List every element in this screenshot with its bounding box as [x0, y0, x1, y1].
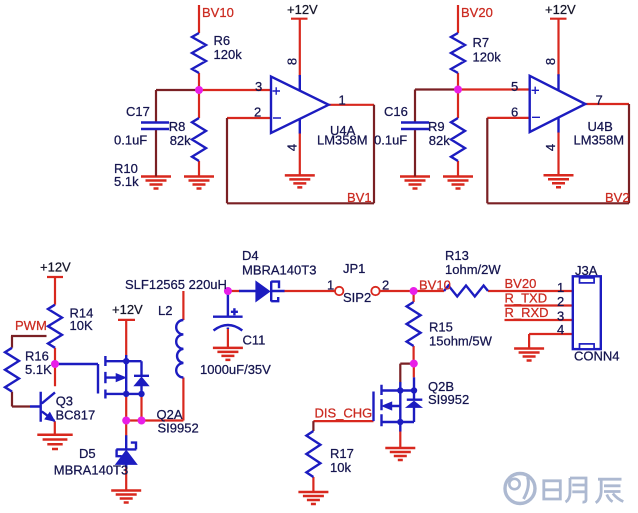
svg-text:6: 6: [511, 105, 518, 120]
svg-text:BV20: BV20: [461, 5, 493, 20]
svg-text:120k: 120k: [473, 50, 502, 65]
svg-text:BV1: BV1: [347, 190, 372, 205]
svg-text:4: 4: [284, 144, 299, 151]
svg-text:2: 2: [382, 278, 389, 293]
svg-text:10k: 10k: [330, 460, 351, 475]
svg-text:J3A: J3A: [575, 263, 598, 278]
svg-text:+12V: +12V: [112, 302, 143, 317]
svg-text:MBRA140T3: MBRA140T3: [54, 463, 128, 478]
svg-text:1ohm/2W: 1ohm/2W: [445, 262, 501, 277]
svg-text:R_TXD: R_TXD: [505, 291, 548, 306]
svg-text:LM358M: LM358M: [317, 133, 368, 148]
svg-text:L2: L2: [158, 303, 172, 318]
svg-text:5.1K: 5.1K: [25, 362, 52, 377]
svg-text:BC817: BC817: [56, 408, 96, 423]
svg-text:2: 2: [254, 105, 261, 120]
svg-text:BV2: BV2: [605, 190, 630, 205]
svg-text:BV10: BV10: [419, 278, 451, 293]
svg-text:82k: 82k: [170, 133, 191, 148]
svg-text:1: 1: [557, 280, 564, 295]
svg-text:R_RXD: R_RXD: [505, 305, 549, 320]
svg-text:SIP2: SIP2: [343, 290, 371, 305]
svg-text:R6: R6: [214, 33, 231, 48]
svg-text:1: 1: [339, 93, 346, 108]
svg-text:D4: D4: [242, 248, 259, 263]
svg-text:R8: R8: [169, 119, 186, 134]
svg-text:8: 8: [543, 58, 558, 65]
svg-text:0.1uF: 0.1uF: [374, 133, 407, 148]
svg-text:5: 5: [511, 79, 518, 94]
svg-text:R15: R15: [429, 320, 453, 335]
svg-text:+12V: +12V: [545, 2, 576, 17]
svg-text:+12V: +12V: [287, 2, 318, 17]
svg-text:R17: R17: [330, 446, 354, 461]
svg-text:5.1k: 5.1k: [114, 174, 139, 189]
svg-text:1: 1: [327, 278, 334, 293]
svg-text:1000uF/35V: 1000uF/35V: [200, 362, 271, 377]
svg-text:R7: R7: [473, 35, 490, 50]
svg-text:4: 4: [543, 144, 558, 151]
svg-text:SI9952: SI9952: [428, 392, 469, 407]
svg-text:SI9952: SI9952: [158, 421, 199, 436]
svg-text:120k: 120k: [214, 47, 243, 62]
svg-text:+12V: +12V: [40, 260, 71, 275]
svg-text:BV10: BV10: [202, 5, 234, 20]
svg-text:Q3: Q3: [56, 394, 73, 409]
svg-text:8: 8: [284, 58, 299, 65]
svg-text:LM358M: LM358M: [574, 133, 625, 148]
svg-text:10K: 10K: [70, 318, 93, 333]
svg-text:R13: R13: [445, 248, 469, 263]
svg-text:D5: D5: [79, 446, 96, 461]
svg-text:3: 3: [255, 79, 262, 94]
svg-text:DIS_CHG: DIS_CHG: [315, 406, 373, 421]
svg-text:R9: R9: [428, 119, 445, 134]
svg-text:2: 2: [557, 294, 564, 309]
svg-text:CONN4: CONN4: [574, 349, 620, 364]
svg-text:C16: C16: [384, 104, 408, 119]
svg-text:82k: 82k: [429, 133, 450, 148]
svg-text:JP1: JP1: [343, 261, 365, 276]
svg-text:BV20: BV20: [505, 276, 537, 291]
svg-text:4: 4: [557, 322, 564, 337]
svg-text:C17: C17: [126, 104, 150, 119]
svg-text:C11: C11: [243, 333, 266, 348]
svg-text:7: 7: [596, 93, 603, 108]
svg-text:SLF12565 220uH: SLF12565 220uH: [125, 277, 227, 292]
svg-text:15ohm/5W: 15ohm/5W: [429, 334, 493, 349]
svg-text:PWM: PWM: [15, 318, 47, 333]
svg-text:MBRA140T3: MBRA140T3: [242, 263, 316, 278]
svg-text:0.1uF: 0.1uF: [114, 133, 147, 148]
